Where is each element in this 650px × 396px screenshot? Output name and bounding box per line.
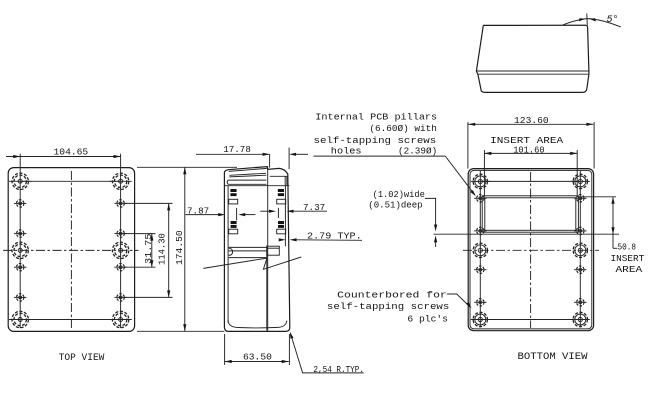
side view outer shell outline (224, 167, 289, 332)
top view small holes left column (14, 200, 26, 301)
leader 2,54 R.TYP. (290, 332, 364, 375)
bottom view groove line full width (434, 233, 620, 235)
top view upper hole connector line (20, 180, 120, 182)
3d view seam line lower (477, 73, 589, 75)
3d view outline (476, 25, 589, 92)
top view big hole ML (12, 242, 28, 258)
bottom view big hole BL (471, 312, 490, 326)
top view big hole TL (9, 173, 31, 189)
svg-text:(0.51)deep: (0.51)deep (368, 200, 423, 211)
top view big hole BR (109, 311, 131, 327)
svg-text:(6.60Ø) with: (6.60Ø) with (369, 123, 437, 134)
bottom view outer outline (468, 169, 593, 331)
side view right pillar tab (277, 199, 286, 204)
svg-text:AREA: AREA (616, 264, 643, 275)
svg-text:BOTTOM VIEW: BOTTOM VIEW (518, 352, 589, 363)
top view right hole column line (120, 154, 122, 328)
dimension 123.60 (468, 115, 594, 169)
bottom view right hole column line (579, 171, 581, 327)
5 degree extension line (586, 14, 589, 26)
svg-text:self-tapping screws: self-tapping screws (314, 135, 437, 146)
side view left pillar tab 2 (229, 229, 238, 234)
side view left inner wall (227, 186, 229, 323)
top view vertical center line (dash-dot) (70, 171, 72, 328)
side view bottom shelf bump (229, 248, 233, 255)
dimension 63.50 (225, 334, 290, 365)
bottom view big hole TR (571, 174, 590, 188)
top view big hole MR (112, 242, 128, 258)
svg-text:5°: 5° (607, 14, 619, 26)
side view lid lip cap (227, 180, 228, 184)
bottom view insert area inner rect (485, 198, 576, 231)
side view right pillar bars 2 (278, 221, 284, 224)
svg-text:63.50: 63.50 (243, 352, 272, 363)
bottom view small holes right (574, 195, 586, 306)
dimension 174.50 (137, 167, 237, 331)
svg-text:174.50: 174.50 (174, 230, 185, 265)
side view left pillar bars 2 (231, 221, 237, 224)
dimension 7.37 (260, 202, 327, 213)
dimension 2.79 TYP. (279, 231, 362, 242)
side view mid section line (267, 186, 269, 331)
dimension 101.60 (484, 144, 577, 197)
side view lid inner slope line left (229, 168, 267, 171)
5 degree arrows (579, 18, 586, 21)
side view break line zigzag (203, 257, 301, 269)
svg-text:Internal PCB pillars: Internal PCB pillars (315, 111, 437, 122)
side view right pillar center line (277, 208, 279, 218)
svg-text:Counterbored for: Counterbored for (337, 290, 447, 301)
top view horizontal center line (dash-dot) (3, 249, 139, 251)
svg-text:17.78: 17.78 (223, 144, 251, 155)
side view lid line right part (270, 175, 288, 177)
side view right inner wall (284, 186, 286, 247)
side view mid section line lower double (266, 246, 268, 331)
bottom view insert area outer rect (482, 196, 578, 232)
side view lid seam line (224, 185, 289, 187)
bottom view big hole ML (473, 243, 487, 257)
bottom view upper hole connector (480, 180, 580, 182)
top view enclosure outline (8, 168, 134, 332)
svg-text:INSERT: INSERT (611, 253, 645, 264)
note internal PCB pillars (314, 111, 476, 196)
5 degree arc (563, 19, 621, 27)
side view lid lip band (229, 179, 267, 181)
side view inner bottom line (228, 321, 287, 328)
bottom view big hole BR (571, 312, 590, 326)
top view lower hole connector line (20, 319, 120, 321)
svg-text:TOP VIEW: TOP VIEW (59, 353, 106, 364)
dimension 114.30 (124, 203, 173, 297)
side view right pillar bars (278, 189, 284, 192)
dimension 17.78 (196, 144, 308, 169)
top view big hole BL (9, 311, 31, 327)
bottom view horizontal center line (463, 249, 599, 251)
top view left hole column line (19, 154, 21, 328)
note counterbored (327, 290, 472, 325)
side view right pillar tab 2 (277, 229, 286, 234)
top view big hole TR (109, 173, 131, 189)
bottom view inner outline (470, 170, 592, 329)
side view left pillar tab (229, 199, 238, 204)
side view lid right verticals (284, 176, 286, 185)
svg-text:self-tapping screws: self-tapping screws (327, 301, 449, 312)
note 1.02 wide 0.51 deep (368, 189, 437, 247)
dimension 31.75 (124, 233, 156, 267)
side view bottom shelf right box (267, 246, 280, 255)
top view small holes right column (114, 200, 126, 301)
side view bottom shelf lines left (229, 246, 267, 248)
svg-text:114.30: 114.30 (157, 233, 168, 265)
dimension 50.8 (578, 197, 644, 275)
svg-text:(2.39Ø): (2.39Ø) (398, 146, 437, 157)
svg-text:6 plc's: 6 plc's (407, 313, 448, 324)
bottom view big hole TL (471, 174, 490, 188)
bottom view big hole MR (573, 243, 587, 257)
bottom view left hole column line (479, 171, 481, 327)
svg-text:104.65: 104.65 (54, 146, 89, 157)
svg-text:holes: holes (331, 146, 362, 157)
svg-text:50.8: 50.8 (618, 242, 637, 253)
side view left pillar center line (236, 208, 238, 220)
dimension 104.65 (6, 146, 121, 158)
dimension 7.87 (186, 206, 256, 217)
bottom view vertical center line (530, 172, 532, 328)
side view lid band lines left (229, 173, 266, 175)
3d view seam line upper (476, 70, 589, 72)
bottom view small holes left (474, 195, 486, 306)
side view lid step vertical (267, 167, 269, 186)
bottom view lower hole connector (480, 319, 580, 321)
side view left pillar bars (230, 189, 236, 192)
